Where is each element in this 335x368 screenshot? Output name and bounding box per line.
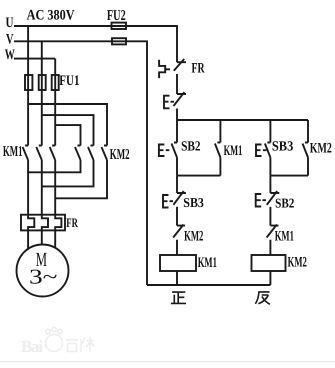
watermark bottom rule bbox=[0, 361, 335, 362]
contactor KM1 main contact 3 bbox=[50, 146, 56, 161]
wire chain stop to branch top bbox=[176, 109, 178, 121]
watermark baidu baike bbox=[21, 327, 94, 356]
motor M circle bbox=[17, 245, 69, 297]
coil KM2 bbox=[252, 255, 286, 271]
label M bbox=[36, 249, 47, 271]
start button SB3 NO contact bbox=[265, 143, 271, 158]
label KM1 aux bbox=[224, 143, 243, 159]
label SB2 interlock bbox=[275, 195, 295, 210]
svg-text:KM1: KM1 bbox=[224, 143, 243, 159]
coil KM1 bbox=[160, 255, 196, 271]
wire chain FR to stop bbox=[176, 74, 178, 94]
wire V phase to left control rail bbox=[14, 41, 147, 285]
svg-text:SB3: SB3 bbox=[272, 140, 293, 155]
node W bbox=[5, 47, 15, 63]
svg-text:KM2: KM2 bbox=[184, 228, 203, 244]
wire chain branch to SB3i bbox=[176, 176, 178, 193]
wire W phase bbox=[14, 58, 55, 60]
label KM1 main bbox=[3, 144, 23, 160]
wire motor lead 1 bbox=[27, 230, 29, 249]
svg-text:AC 380V: AC 380V bbox=[27, 8, 75, 24]
label FR contact bbox=[192, 61, 205, 77]
svg-text:KM1: KM1 bbox=[3, 144, 23, 160]
svg-text:W: W bbox=[5, 47, 15, 63]
thermal relay FR heater box bbox=[21, 215, 65, 231]
wire crossover C to KM2 column 1 bbox=[55, 125, 80, 145]
label zheng (forward) bbox=[171, 292, 186, 303]
svg-text:KM1: KM1 bbox=[275, 228, 294, 244]
svg-text:FR: FR bbox=[192, 61, 205, 77]
wire branch top line bbox=[177, 119, 308, 121]
svg-text:FU1: FU1 bbox=[59, 73, 79, 89]
wire right chain branch to SB2i bbox=[269, 176, 271, 193]
wire right chain SB2i to KM1 NC bbox=[269, 207, 271, 226]
label KM2 interlock bbox=[184, 228, 203, 244]
wire phase B vertical upper bbox=[41, 41, 43, 145]
svg-text:U: U bbox=[6, 15, 14, 31]
interlock button SB3 actuator E bbox=[163, 195, 173, 208]
relay FR NC contact bbox=[174, 59, 186, 71]
label FU1 bbox=[59, 73, 79, 89]
contactor KM1 aux NO contact bbox=[215, 143, 221, 158]
wire crossover B to KM2 column 2 bbox=[42, 115, 94, 145]
wire KM2 aux upper bbox=[307, 120, 309, 143]
svg-text:SB2: SB2 bbox=[181, 140, 201, 155]
contactor KM2 main contact 3 bbox=[102, 146, 108, 161]
stop button SB1 NC contact bbox=[174, 92, 187, 106]
label fan (reverse) bbox=[255, 292, 270, 304]
stop button SB1 actuator E bbox=[164, 96, 174, 109]
label SB3 interlock bbox=[183, 195, 204, 210]
contactor KM2 NC interlock contact bbox=[173, 225, 185, 238]
wire phase C vertical upper bbox=[54, 59, 56, 146]
wire motor lead 3 bbox=[54, 230, 56, 248]
wire bottom return line bbox=[147, 284, 270, 286]
svg-text:KM2: KM2 bbox=[288, 254, 307, 270]
wire KM1 coil to bottom bbox=[176, 271, 178, 285]
wire KM2 coil to bottom bbox=[269, 271, 271, 285]
FR heater element 2 bbox=[42, 215, 48, 231]
interlock button SB3 NC contact bbox=[173, 191, 186, 205]
wire crossover A to KM2 column 3 bbox=[28, 104, 107, 146]
label KM2 aux bbox=[310, 141, 332, 157]
wire phase A vertical lower bbox=[27, 160, 29, 215]
contactor KM1 main contact 2 bbox=[36, 146, 42, 161]
wire KM2 output 2 merge bbox=[42, 160, 94, 186]
contactor KM2 aux NO contact bbox=[303, 143, 309, 158]
svg-text:KM2: KM2 bbox=[310, 141, 332, 157]
wire phase C vertical lower bbox=[54, 160, 56, 215]
start button SB2 NO contact bbox=[172, 143, 178, 158]
wire phase A vertical upper bbox=[27, 26, 29, 146]
svg-text:KM1: KM1 bbox=[198, 255, 217, 271]
svg-text:3~: 3~ bbox=[29, 265, 58, 289]
wire right branch SB3 upper bbox=[269, 120, 271, 143]
label KM2 main bbox=[110, 147, 130, 163]
wire chain SB3i to KM2 NC bbox=[176, 207, 178, 226]
contactor KM1 main contact 1 bbox=[23, 146, 29, 161]
FR heater element 1 bbox=[28, 215, 34, 231]
svg-text:SB2: SB2 bbox=[275, 195, 295, 210]
label KM1 coil bbox=[198, 255, 217, 271]
start button SB3 actuator E bbox=[256, 145, 266, 157]
start button SB2 actuator E bbox=[159, 145, 169, 157]
wire phase B vertical lower bbox=[41, 160, 43, 215]
wire KM2 output 1 merge bbox=[28, 160, 80, 172]
svg-text:Bai: Bai bbox=[21, 337, 43, 356]
contactor KM2 main contact 2 bbox=[88, 146, 94, 161]
label KM1 interlock bbox=[275, 228, 294, 244]
wire KM2 output 3 merge bbox=[55, 160, 107, 198]
FR heater element 3 bbox=[55, 215, 61, 231]
label FU2 bbox=[107, 8, 126, 24]
label KM2 coil bbox=[288, 254, 307, 270]
fuse FU2a bbox=[112, 23, 127, 29]
label 3~ bbox=[29, 265, 58, 289]
wire right branch bottom bbox=[270, 158, 308, 176]
wire left branch SB2 upper bbox=[176, 120, 178, 143]
svg-text:V: V bbox=[6, 32, 14, 48]
interlock button SB2 NC contact bbox=[267, 191, 280, 205]
svg-text:FU2: FU2 bbox=[107, 8, 126, 24]
node V bbox=[6, 32, 14, 48]
fuse FU1c bbox=[52, 75, 59, 90]
interlock button SB2 actuator E bbox=[256, 194, 266, 207]
label AC 380V bbox=[27, 8, 75, 24]
fuse FU1b bbox=[39, 75, 46, 90]
fuse FU2b bbox=[112, 38, 126, 44]
wire motor lead 2 bbox=[41, 230, 43, 244]
label FR heater bbox=[66, 215, 78, 230]
label SB3 bbox=[272, 140, 293, 155]
svg-text:FR: FR bbox=[66, 215, 78, 230]
wire U phase to control chain bbox=[14, 26, 177, 62]
wire KM1 aux upper bbox=[219, 120, 221, 143]
wire chain KM2 NC to coil bbox=[176, 240, 178, 255]
wire right chain KM1 NC to coil bbox=[269, 240, 271, 255]
fuse FU1a bbox=[25, 75, 32, 90]
svg-text:KM2: KM2 bbox=[110, 147, 130, 163]
node U bbox=[6, 15, 14, 31]
svg-text:SB3: SB3 bbox=[183, 195, 204, 210]
contactor KM1 NC interlock contact bbox=[267, 225, 279, 238]
label SB2 bbox=[181, 140, 201, 155]
contactor KM2 main contact 1 bbox=[75, 146, 81, 161]
thermal relay FR trip element bbox=[159, 60, 170, 78]
wire left branch bottom bbox=[177, 158, 220, 176]
